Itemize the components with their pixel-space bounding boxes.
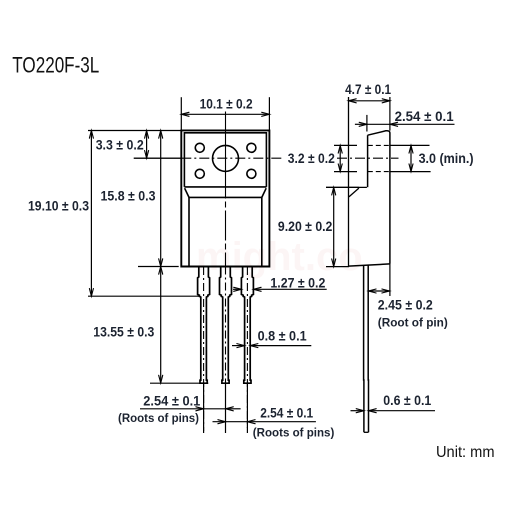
pin 1 extension line below <box>203 383 205 433</box>
side view hidden hole line bottom <box>368 171 390 173</box>
dimension 15.8 line <box>159 131 163 267</box>
small hole bottom-left <box>195 169 204 178</box>
dimension 3.3 label <box>96 136 144 152</box>
side view hidden hole line top <box>368 144 390 146</box>
dimension roots right line <box>213 420 316 424</box>
svg-text:(Roots of pins): (Roots of pins) <box>118 413 199 425</box>
pin 3 extension line below <box>246 383 248 433</box>
svg-text:2.45 ± 0.2: 2.45 ± 0.2 <box>378 297 433 313</box>
svg-text:2.54 ± 0.1: 2.54 ± 0.1 <box>260 404 313 420</box>
dimension 1.27 line <box>233 287 327 291</box>
dimension 0.8 label <box>258 328 307 344</box>
dimension 19.10 line <box>89 131 93 297</box>
side view chamfer <box>349 188 359 197</box>
title TO220F-3L <box>12 52 99 77</box>
svg-text:TO220F-3L: TO220F-3L <box>12 52 99 77</box>
svg-text:3.2 ± 0.2: 3.2 ± 0.2 <box>288 150 335 166</box>
svg-text:Unit: mm: Unit: mm <box>436 444 495 461</box>
watermark <box>196 235 363 279</box>
dimension 2.54 side extension <box>366 115 368 132</box>
dimension 1.27 label <box>270 274 325 290</box>
unit note <box>436 444 495 461</box>
dimension 2.45 label <box>378 297 433 313</box>
dimension 2.54 side label <box>395 108 454 124</box>
pin 1 <box>198 267 210 384</box>
svg-text:13.55 ± 0.3: 13.55 ± 0.3 <box>93 323 154 339</box>
svg-text:(Root of pin): (Root of pin) <box>378 317 448 329</box>
small hole top-right <box>247 143 256 152</box>
svg-text:15.8 ± 0.3: 15.8 ± 0.3 <box>101 188 156 204</box>
svg-text:9.20 ± 0.2: 9.20 ± 0.2 <box>278 218 333 234</box>
dimension 3.2 line <box>338 145 342 171</box>
dimension 3.3 line <box>145 131 149 159</box>
dimension roots left label <box>143 392 200 408</box>
dimension 2.45 sublabel <box>378 317 448 329</box>
top extension line <box>88 130 181 132</box>
pin 3 <box>241 267 253 384</box>
front view body outer outline <box>181 130 269 266</box>
dimension 0.6 label <box>383 392 431 408</box>
front view flange inner outline <box>184 133 266 187</box>
dimension 19.10 label <box>28 197 89 213</box>
svg-text:19.10 ± 0.3: 19.10 ± 0.3 <box>28 197 89 213</box>
dimension 3.2 label <box>288 150 335 166</box>
dimension 0.6 line <box>351 409 436 413</box>
svg-text:0.8 ± 0.1: 0.8 ± 0.1 <box>258 328 307 344</box>
svg-text:(Roots of pins): (Roots of pins) <box>253 428 335 440</box>
hole center extension line left <box>134 157 182 159</box>
svg-text:0.6 ± 0.1: 0.6 ± 0.1 <box>383 392 431 408</box>
dimension 4.7 extension right <box>389 97 391 131</box>
dimension 9.20 label <box>278 218 333 234</box>
body bottom extension line left <box>138 266 179 268</box>
dimension 9.20 extension lines <box>326 187 359 266</box>
dimension 9.20 line <box>332 187 336 266</box>
pin tip extension line <box>150 382 208 384</box>
mounting hole <box>213 145 239 171</box>
front view taper right <box>262 188 266 197</box>
dimension 2.54 side line <box>355 122 455 126</box>
dimension 2.45 line <box>368 289 389 293</box>
dimension roots left line <box>140 407 241 411</box>
front view taper left <box>185 188 189 197</box>
svg-text:2.54 ± 0.1: 2.54 ± 0.1 <box>143 392 200 408</box>
dimension 3.0 extension lines <box>390 145 431 171</box>
side view shoulder line <box>326 186 367 188</box>
side view front face and 4.7 extension <box>348 97 350 266</box>
vertical centerline body and pin 2 <box>225 112 227 434</box>
dimension 13.55 label <box>93 323 154 339</box>
dimension 10.1 label <box>200 95 253 111</box>
pin 1 centerline <box>203 267 205 431</box>
dimension roots right sublabel <box>253 428 335 440</box>
dimension 10.1 extension lines <box>181 97 269 130</box>
dimension 3.0 label <box>419 150 474 166</box>
dimension 3.0 line <box>409 145 413 171</box>
dimension 3.2 extension lines <box>334 145 357 171</box>
pin 2 <box>220 267 232 384</box>
dimension 0.8 line <box>232 344 311 348</box>
svg-text:10.1 ± 0.2: 10.1 ± 0.2 <box>200 95 253 111</box>
svg-text:3.3 ± 0.2: 3.3 ± 0.2 <box>96 136 144 152</box>
dimension 19.10 bottom extension line <box>88 295 200 297</box>
front view lower body inner outline <box>189 197 262 266</box>
side view bottom edge <box>349 264 390 266</box>
dimension 10.1 line <box>181 112 269 116</box>
side view tab front face <box>367 135 369 187</box>
svg-text:2.54 ± 0.1: 2.54 ± 0.1 <box>395 108 454 124</box>
pin 3 centerline <box>246 267 248 428</box>
side view pin <box>364 265 369 432</box>
dimension 4.7 label <box>345 81 391 97</box>
side view back face <box>368 131 390 264</box>
small hole bottom-right <box>247 169 256 178</box>
svg-text:1.27 ± 0.2: 1.27 ± 0.2 <box>270 274 325 290</box>
dimension 13.55 line <box>159 267 163 384</box>
dimension 15.8 label <box>101 188 156 204</box>
dimension roots left sublabel <box>118 413 199 425</box>
dimension 2.45 extension <box>389 264 391 296</box>
svg-text:4.7 ± 0.1: 4.7 ± 0.1 <box>345 81 391 97</box>
dimension 4.7 line <box>349 99 390 103</box>
svg-text:3.0 (min.): 3.0 (min.) <box>419 150 474 166</box>
dimension roots right label <box>260 404 313 420</box>
horizontal centerline through hole <box>134 157 399 159</box>
small hole top-left <box>195 143 204 152</box>
